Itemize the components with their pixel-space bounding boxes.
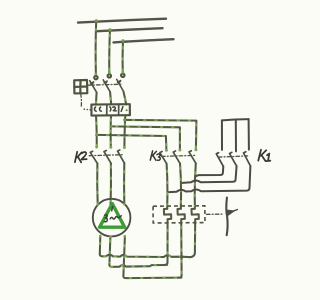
wire Q1 pole3 to overload box — [124, 92, 127, 105]
wire K2 pole2 to motor — [109, 163, 112, 207]
wire run A motor lead1 to V3 — [100, 254, 191, 259]
trip actuator — [226, 198, 237, 236]
contactor K2 blade 3 — [118, 150, 125, 163]
switch Q1 pole 3 contact circle — [121, 74, 124, 77]
contactor K1 blade 2 — [230, 152, 237, 166]
contactor K3 blade 1 — [160, 152, 167, 164]
contactor K2 blade 2 — [104, 151, 111, 164]
switch Q1 pole 2 contact circle — [108, 74, 111, 77]
contactor K1 pole 3 — [248, 119, 250, 150]
bus line L2 — [98, 28, 163, 31]
handle trip linkage dash down — [80, 94, 83, 107]
wire Q1 pole2 to overload box — [110, 92, 111, 104]
bent wire b K1 pole2 to V2 — [183, 166, 237, 183]
wire drop phase 2 — [108, 28, 111, 73]
wire V3 K3 pole3 down through heater, hooks into run A — [190, 163, 199, 257]
bent wire c K1 pole3 to V1 — [169, 166, 250, 192]
motor 3~ inscription — [104, 207, 121, 222]
label K1 — [258, 150, 270, 161]
contactor K1 linkage dash — [218, 156, 247, 157]
contactor K2 linkage dash — [89, 155, 123, 156]
wire K2 pole3 to motor — [123, 163, 125, 204]
motor lead 3 down — [123, 236, 125, 276]
label K3 — [150, 151, 160, 160]
switch Q1 blade 1 — [90, 81, 97, 93]
switch Q1 handle box — [74, 80, 87, 93]
wire F1 out 3 down to K2 — [123, 115, 126, 147]
label K2 — [75, 152, 87, 163]
wire Q1 pole1 to overload box — [95, 93, 98, 105]
wire F1 out 1 down to K2 — [95, 115, 98, 146]
bus line L3 — [114, 39, 174, 42]
motor M circle — [93, 199, 131, 237]
branch H3 wire1 to K3 pole1 — [95, 133, 166, 150]
wire run C motor lead3 to V2 — [123, 276, 181, 279]
switch Q1 pole 1 contact circle — [94, 76, 97, 79]
contactor K3 blade 2 — [173, 151, 180, 163]
F1 cell squiggles — [94, 107, 122, 112]
bent wire a K1 pole1 to V3 — [196, 166, 223, 176]
contactor K3 linkage dash — [162, 155, 195, 156]
switch Q1 blade 3 — [117, 79, 124, 91]
wire V2 K3 pole2 down through heater to bottom — [178, 163, 185, 277]
contactor K1 blade 1 — [216, 153, 223, 167]
contactor K3 blade 3 — [189, 151, 196, 163]
wire end junction dots — [95, 71, 198, 238]
branch H2 wire2 to K3 pole2 — [110, 125, 180, 150]
overload relay F2 dashed box — [153, 206, 205, 223]
contactor K1 top bar (star point) — [222, 119, 249, 120]
contactor K2 blade 1 — [90, 151, 97, 163]
switch Q1 linkage dash — [88, 84, 122, 85]
handle trip linkage dots — [84, 108, 91, 110]
motor lead 1 down — [99, 236, 102, 254]
motor lead 2 down — [109, 236, 110, 264]
motor delta triangle — [100, 204, 125, 228]
wire drop phase 3 — [121, 39, 124, 72]
wire run B motor lead2 to V1 — [109, 264, 167, 267]
wire K2 pole1 to motor — [96, 163, 99, 204]
F2 trip linkage dash-dot — [207, 213, 223, 215]
wire drop phase 1 — [95, 19, 98, 74]
bus line L1 — [78, 19, 166, 23]
switch Q1 blade 2 — [103, 80, 110, 92]
overload/fuse box F1 — [91, 104, 129, 115]
contactor K1 blade 3 — [244, 152, 251, 166]
wire F1 out 2 down to K2 — [110, 115, 112, 147]
wire V1 K3 pole1 down through heater to bottom — [164, 164, 171, 265]
contactor K1 pole 2 — [235, 120, 237, 152]
contactor K1 pole 1 — [221, 120, 223, 149]
branch H1 wire3 to K3 pole3 — [123, 118, 196, 149]
